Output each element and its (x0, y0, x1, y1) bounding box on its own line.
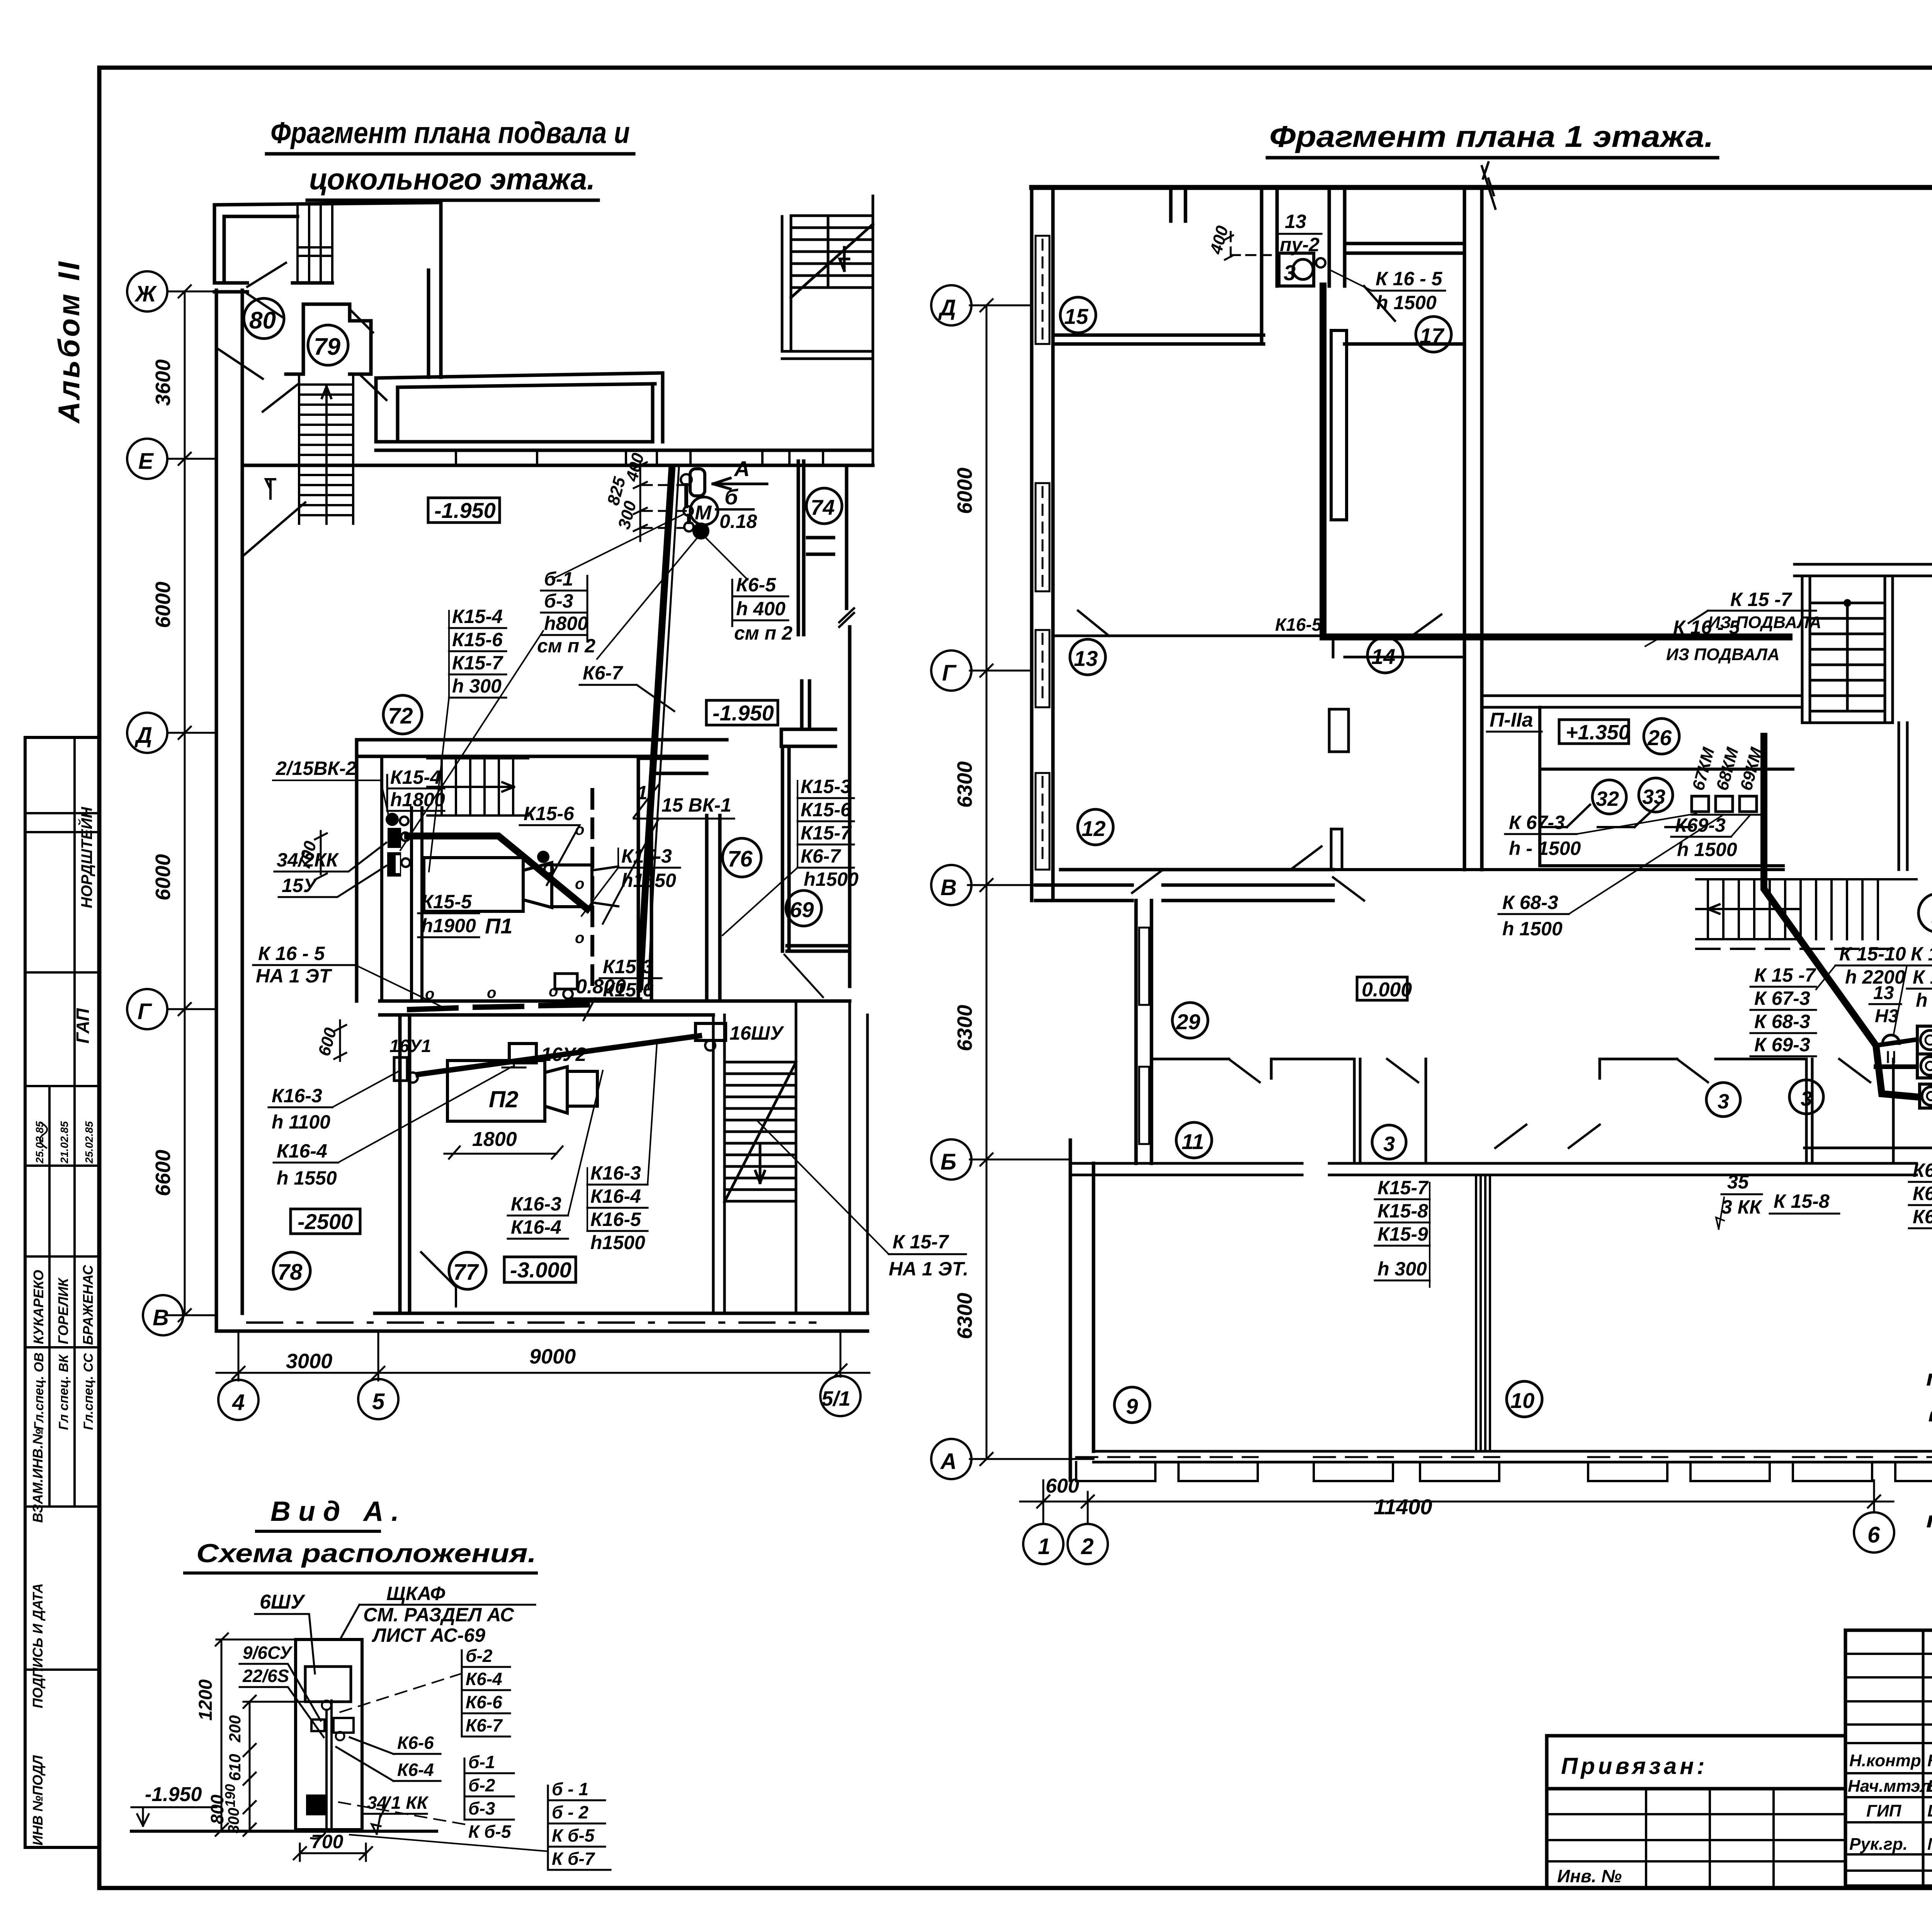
label K15-7 K67-3 K68-3 K69-3 stack (1750, 964, 1816, 1056)
svg-text:ЩКАФ: ЩКАФ (386, 1583, 445, 1604)
svg-text:Рук.гр.: Рук.гр. (1849, 1835, 1908, 1854)
svg-text:о: о (575, 930, 584, 947)
NE stair block (782, 196, 873, 465)
svg-text:б-3: б-3 (468, 1798, 495, 1818)
svg-text:пу-2: пу-2 (1280, 234, 1320, 255)
svg-text:12: 12 (1082, 816, 1105, 841)
svg-text:29: 29 (1176, 1010, 1200, 1034)
base hook (311, 1830, 327, 1839)
svg-text:К6-7: К6-7 (801, 845, 841, 867)
bottom axis dims (216, 1331, 869, 1420)
corridor bottom walls (380, 1001, 850, 1015)
svg-text:цокольного этажа.: цокольного этажа. (309, 162, 595, 196)
dim ticks near M (604, 451, 696, 541)
svg-text:А: А (940, 1449, 957, 1474)
KM labels rotated (1689, 745, 1766, 793)
svg-text:6300: 6300 (953, 1005, 976, 1051)
svg-text:М: М (695, 502, 712, 524)
svg-text:35: 35 (1727, 1171, 1749, 1193)
svg-text:76: 76 (728, 846, 753, 872)
hydrant symbol (1883, 1035, 1900, 1062)
svg-text:200: 200 (226, 1715, 244, 1743)
room 79 door swing (350, 309, 386, 400)
svg-text:б: б (724, 485, 738, 509)
corridor windows (1139, 928, 1149, 1144)
small devices (311, 1720, 325, 1731)
svg-text:300: 300 (225, 1808, 242, 1834)
svg-text:К15-7: К15-7 (801, 822, 852, 844)
svg-text:К б-5: К б-5 (552, 1825, 595, 1845)
south outer wall (216, 1313, 867, 1331)
svg-text:0.800: 0.800 (576, 976, 626, 998)
level -1.950 box left (428, 498, 500, 523)
svg-text:Гл.спец. ОВ: Гл.спец. ОВ (32, 1352, 46, 1430)
svg-text:К15-7: К15-7 (452, 652, 503, 674)
svg-text:h 300: h 300 (452, 675, 502, 697)
B axis wall (Б) (1070, 1163, 1917, 1175)
svg-text:13: 13 (1074, 646, 1098, 671)
corridor walls under hall (242, 442, 873, 465)
porch top-left block (214, 203, 441, 283)
svg-text:800: 800 (207, 1794, 227, 1824)
room 79 tag (308, 325, 348, 365)
label K16-5 iz podvala (1645, 616, 1780, 664)
label K15-7 NA 1 ET (757, 1121, 968, 1280)
svg-text:К 15-7: К 15-7 (893, 1231, 949, 1253)
svg-text:25.02.85: 25.02.85 (34, 1121, 46, 1164)
dim 700 (294, 1831, 372, 1861)
svg-text:К15-4: К15-4 (452, 606, 503, 627)
label K15-6 (520, 803, 580, 885)
svg-text:НА 1 ЭТ.: НА 1 ЭТ. (889, 1258, 968, 1280)
south stair (corridor) (1696, 879, 1917, 949)
svg-text:б-2: б-2 (466, 1646, 493, 1666)
wall break symbol (839, 608, 854, 627)
label K68-3 h1500 (1498, 815, 1723, 940)
svg-text:h1500: h1500 (804, 868, 859, 890)
B axis corridor walls (1036, 870, 1333, 901)
level 0.000 box (1357, 977, 1412, 1001)
svg-text:см п 2: см п 2 (734, 622, 793, 644)
svg-text:Альбом II: Альбом II (52, 259, 86, 424)
north wall (1032, 185, 1932, 190)
svg-text:72: 72 (388, 703, 413, 729)
label 35/3KK (1716, 1171, 1762, 1229)
label K6-4 (336, 1747, 440, 1781)
svg-text:Д: Д (938, 295, 956, 320)
svg-text:Е: Е (138, 449, 154, 474)
room 74 tag (806, 488, 842, 524)
svg-text:б-1: б-1 (468, 1752, 495, 1772)
svg-text:о: о (549, 983, 558, 1000)
svg-text:Кунина: Кунина (1927, 1751, 1932, 1770)
svg-text:б - 1: б - 1 (552, 1779, 588, 1799)
svg-text:3600: 3600 (151, 359, 175, 406)
svg-text:ПОДПИСЬ И ДАТА: ПОДПИСЬ И ДАТА (30, 1583, 46, 1708)
room 29 tag (1172, 1003, 1208, 1038)
svg-text:К 15-9: К 15-9 (1913, 966, 1932, 988)
dim 600 (315, 1020, 346, 1061)
svg-text:Гл.спец. СС: Гл.спец. СС (81, 1353, 96, 1430)
west corridor wall section (1136, 901, 1151, 1163)
motor circle M (690, 497, 718, 525)
svg-text:А: А (733, 456, 750, 481)
svg-text:ИЗ ПОДВАЛА: ИЗ ПОДВАЛА (1708, 613, 1821, 632)
door arcs 13/14 (1078, 286, 1441, 637)
svg-text:б - 2: б - 2 (552, 1802, 588, 1822)
svg-text:69: 69 (790, 897, 814, 922)
svg-text:Мороз: Мороз (1927, 1835, 1932, 1854)
room 13 tag (1070, 639, 1105, 675)
signature squiggles (40, 1122, 47, 1148)
svg-text:КУКАРЕКО: КУКАРЕКО (31, 1270, 46, 1344)
svg-text:ЛИСТ АС-69: ЛИСТ АС-69 (372, 1624, 485, 1646)
corridor G walls (1482, 696, 1802, 707)
svg-text:22/6S: 22/6S (242, 1666, 289, 1686)
level -3.000 box (504, 1257, 576, 1282)
labels 34/2KK 15U (274, 843, 386, 897)
svg-text:К15-6: К15-6 (801, 799, 852, 821)
labels K16-3 h1100 (269, 1071, 400, 1133)
svg-text:10: 10 (1510, 1388, 1534, 1413)
svg-text:К 67-3: К 67-3 (1509, 812, 1565, 833)
svg-text:3: 3 (1718, 1090, 1729, 1113)
svg-text:600: 600 (1046, 1475, 1079, 1497)
label K16-3 K16-4 stack (508, 1071, 603, 1239)
svg-text:6000: 6000 (953, 468, 976, 514)
svg-text:700: 700 (311, 1831, 344, 1852)
label K15-7 K15-8 K15-9 h300 stack (1375, 1177, 1430, 1287)
svg-text:h 300: h 300 (1378, 1258, 1427, 1280)
svg-text:0.000: 0.000 (1362, 979, 1412, 1001)
corridor heavy dashed run (410, 1005, 587, 1010)
svg-text:Г: Г (138, 999, 152, 1024)
svg-text:-1.950: -1.950 (713, 701, 774, 725)
svg-text:К 68-3: К 68-3 (1502, 892, 1558, 913)
svg-text:79: 79 (314, 334, 340, 360)
small junction circles (681, 474, 694, 531)
room 17 walls (1329, 187, 1464, 344)
small duct rects (1329, 709, 1349, 752)
mid wall below room72 (357, 740, 727, 1001)
label ShKAF block (340, 1583, 535, 1646)
riser pipe thick (640, 468, 672, 987)
PU-3 device (1920, 1084, 1932, 1109)
west wall windows (1036, 236, 1049, 870)
stack 6-1 6-2 K6-5 K6-7 (350, 1779, 611, 1870)
label 22/6S (240, 1666, 324, 1737)
label 1/15BK-1 (603, 782, 734, 924)
svg-text:К6-4: К6-4 (466, 1669, 502, 1689)
label stack K15-3 K15-6 K15-7 K6-7 h1500 (right) (723, 776, 859, 935)
svg-text:400: 400 (1206, 223, 1232, 256)
svg-text:Фрагмент плана 1 этажа.: Фрагмент плана 1 этажа. (1269, 119, 1714, 153)
label K69-3 h1500 (1671, 814, 1750, 860)
svg-text:К15-8: К15-8 (1378, 1200, 1428, 1222)
svg-text:9: 9 (1126, 1394, 1138, 1418)
svg-text:П1: П1 (485, 914, 512, 938)
svg-text:9000: 9000 (529, 1345, 576, 1368)
svg-text:1 КК: 1 КК (391, 1793, 429, 1813)
svg-text:Привязан:: Привязан: (1561, 1753, 1708, 1779)
filled dot near P1 (537, 851, 549, 863)
svg-text:Вид А.: Вид А. (270, 1496, 407, 1527)
label 13/N3 (1869, 983, 1901, 1027)
label 6ShU (255, 1591, 315, 1674)
room tags 11 and 3s (1176, 1122, 1212, 1158)
svg-text:1: 1 (1038, 1534, 1050, 1559)
dim 1800 (444, 1128, 563, 1159)
room 9 tag (1114, 1387, 1150, 1423)
svg-text:6600: 6600 (151, 1150, 175, 1196)
svg-text:о: о (575, 875, 584, 892)
room 78 tag (273, 1252, 310, 1289)
corridor pier ticks (456, 450, 823, 465)
level -2500 box (291, 1209, 360, 1234)
connector polyline (686, 485, 689, 522)
label K15-5 h1900 P1 (418, 891, 512, 938)
svg-text:К6-7: К6-7 (466, 1715, 503, 1735)
svg-text:h - 1500: h - 1500 (1509, 838, 1581, 859)
svg-text:К6-5: К6-5 (736, 574, 776, 596)
svg-text:-3.000: -3.000 (510, 1258, 571, 1282)
svg-text:Д: Д (134, 723, 152, 748)
room 15 tag (1060, 297, 1096, 333)
A axis window band (1076, 1451, 1932, 1481)
svg-text:h1800: h1800 (390, 789, 445, 810)
svg-text:БРАЖЕНАС: БРАЖЕНАС (80, 1265, 96, 1345)
svg-text:К 69-3: К 69-3 (1754, 1034, 1810, 1056)
center column rooms 9/10 (1476, 1175, 1490, 1451)
svg-text:К67-3: К67-3 (1913, 1159, 1932, 1181)
svg-text:К16-3: К16-3 (590, 1162, 641, 1184)
PU-1 device (1917, 1054, 1932, 1079)
svg-text:h1500: h1500 (590, 1232, 645, 1253)
svg-text:К 15 -7: К 15 -7 (1730, 589, 1793, 610)
label K16-5 small (1272, 615, 1323, 636)
west outer wall upper (1032, 187, 1053, 901)
SE stair block (713, 1001, 867, 1313)
svg-text:21.02.85: 21.02.85 (58, 1121, 70, 1164)
svg-text:К6-6: К6-6 (466, 1692, 502, 1712)
svg-text:600: 600 (315, 1025, 340, 1058)
svg-text:Нач.мтэл: Нач.мтэл (1848, 1777, 1931, 1796)
PSA device (1917, 1026, 1932, 1054)
level +1.350 box (1559, 720, 1630, 744)
drop line (325, 1710, 328, 1830)
label K16-3 K16-4 K16-5 h1500 stack (587, 1044, 657, 1253)
leader lines from dot (553, 514, 748, 659)
svg-text:Ж: Ж (134, 281, 157, 306)
hall (-1.950 pit) walls (376, 373, 663, 442)
black box (306, 1794, 327, 1815)
svg-text:h 1550: h 1550 (277, 1167, 337, 1189)
svg-text:3: 3 (1383, 1132, 1395, 1156)
o marks corridor (425, 983, 558, 1003)
rooms 9/10 west wall (1070, 1140, 1094, 1480)
svg-text:+1.350: +1.350 (1566, 721, 1630, 744)
view A arrow (713, 456, 767, 489)
label K16-5 NA 1 ET (253, 943, 444, 1008)
cabinet inner divider (330, 1701, 333, 1830)
svg-text:5: 5 (372, 1389, 385, 1414)
svg-text:-1.950: -1.950 (145, 1783, 202, 1806)
svg-text:К16-3: К16-3 (272, 1085, 322, 1107)
device box on diagonal (555, 974, 577, 999)
svg-text:15: 15 (1064, 304, 1088, 329)
svg-text:-2500: -2500 (298, 1209, 353, 1234)
svg-text:К68-3: К68-3 (1913, 1183, 1932, 1204)
svg-text:К16-3: К16-3 (511, 1193, 561, 1215)
svg-text:17: 17 (1420, 323, 1445, 348)
svg-text:В: В (153, 1305, 169, 1330)
right rooms 3 partitions (1600, 1059, 1893, 1163)
label 13/PU-2 (1277, 211, 1321, 255)
svg-text:НОРДШТЕЙН: НОРДШТЕЙН (77, 807, 95, 908)
svg-text:внешних проводок А6, А7, А10,: внешних проводок А6, А7, А10, А12, А14. (1928, 1401, 1932, 1427)
svg-text:Гл спец. ВК: Гл спец. ВК (56, 1354, 71, 1430)
svg-text:h 1500: h 1500 (1502, 918, 1563, 940)
bottom axis dims (center) (1020, 1475, 1894, 1564)
svg-text:К6-4: К6-4 (397, 1760, 434, 1780)
svg-text:К 16 - 5: К 16 - 5 (1376, 268, 1443, 289)
svg-text:Н.контр.: Н.контр. (1849, 1751, 1926, 1770)
lower landing diagonal (242, 479, 305, 557)
svg-text:К б-5: К б-5 (468, 1822, 512, 1842)
thick pipe K15-7 down (1764, 736, 1917, 1097)
svg-text:Фрагмент плана подвала и: Фрагмент плана подвала и (270, 116, 630, 150)
svg-text:К15-7: К15-7 (1378, 1177, 1429, 1199)
porch right wall (429, 203, 441, 377)
wall break slash (1482, 162, 1495, 209)
svg-text:К 15-10: К 15-10 (1839, 943, 1906, 965)
KM device boxes (1692, 796, 1762, 815)
svg-text:2: 2 (1081, 1534, 1094, 1559)
svg-text:К15-3: К15-3 (621, 845, 672, 867)
room 15 walls (1053, 187, 1277, 344)
device 16ShU (696, 1022, 785, 1050)
axis Ж wall piers (214, 283, 332, 292)
svg-text:-1.950: -1.950 (434, 498, 496, 523)
svg-text:4: 4 (232, 1390, 245, 1415)
junction dot (692, 523, 709, 540)
svg-text:13: 13 (1285, 211, 1306, 232)
room 26 tag (1644, 718, 1679, 754)
svg-text:К 15-10: К 15-10 (1911, 943, 1932, 965)
central stair (299, 374, 353, 524)
room 79 outline (286, 304, 371, 374)
label stack b-1 b-3 h800 smp2 (400, 568, 595, 850)
axis circles and dims (center) (931, 285, 1094, 1479)
west outer wall (216, 290, 242, 1331)
svg-text:h 400: h 400 (736, 598, 786, 620)
svg-text:ГОРЕЛИК: ГОРЕЛИК (55, 1277, 71, 1344)
svg-text:К69-3: К69-3 (1913, 1206, 1932, 1227)
svg-text:Инв. №: Инв. № (1557, 1866, 1622, 1886)
svg-text:о: о (487, 984, 496, 1001)
dashed riser with o marks (575, 790, 592, 989)
svg-text:К б-7: К б-7 (552, 1849, 595, 1869)
room 12 tag (1078, 809, 1113, 845)
P2 unit (447, 1061, 597, 1121)
cabinet outline (296, 1639, 362, 1830)
label K67-3 K68-3 K69-3 stack (1909, 1159, 1932, 1228)
base ground line (131, 1830, 437, 1833)
room 26 block walls (1540, 707, 1793, 866)
svg-text:1800: 1800 (472, 1128, 517, 1151)
labels K16-4 h1550 (274, 1067, 512, 1189)
right side walls rooms 76/69 (638, 681, 849, 1001)
svg-text:33: 33 (1642, 785, 1665, 809)
svg-text:6300: 6300 (953, 761, 976, 808)
room 77 tag (449, 1252, 486, 1289)
svg-text:6300: 6300 (953, 1293, 976, 1339)
level -1.950 mark (131, 1783, 216, 1826)
svg-text:НА 1 ЭТ: НА 1 ЭТ (256, 965, 333, 987)
room 69 door leader (784, 955, 823, 997)
svg-text:К15-6: К15-6 (524, 803, 575, 824)
doors 32/33 (1540, 805, 1692, 827)
rooms 32/33 tags (1592, 780, 1626, 814)
dim ladder (196, 1633, 309, 1836)
svg-text:о: о (575, 821, 584, 838)
svg-text:h800: h800 (544, 613, 588, 634)
svg-text:3000: 3000 (286, 1350, 332, 1373)
svg-text:77: 77 (453, 1260, 479, 1285)
label K6-7 (580, 662, 674, 711)
porch stair treads (298, 204, 332, 282)
svg-text:25.02.85: 25.02.85 (83, 1121, 95, 1164)
svg-text:ГИП: ГИП (1866, 1801, 1902, 1820)
rooms 78/77 divider (400, 1015, 410, 1313)
svg-text:16У2: 16У2 (541, 1044, 586, 1065)
dim 400 (1206, 223, 1279, 260)
label K15-8 right (1770, 1190, 1839, 1214)
svg-text:К16-4: К16-4 (277, 1140, 327, 1162)
svg-text:26: 26 (1647, 725, 1672, 750)
svg-text:К15-6: К15-6 (452, 629, 503, 650)
svg-text:типы труб соответствуют схемам: типы труб соответствуют схемам соединени… (1926, 1365, 1932, 1391)
NE lower walls / room 74 (798, 461, 850, 986)
room 77 door (421, 1252, 456, 1306)
svg-text:11400: 11400 (1374, 1495, 1432, 1519)
rotated names (30, 807, 96, 1845)
K15-3 h1650 label (582, 845, 680, 916)
svg-text:h 1500: h 1500 (1916, 989, 1932, 1011)
sidebar box (25, 737, 99, 1847)
sign table (1845, 1630, 1932, 1886)
room 80 tag (244, 298, 284, 339)
svg-text:80: 80 (249, 307, 276, 334)
mid stair passage (427, 758, 528, 815)
svg-text:К16-5: К16-5 (1275, 615, 1322, 635)
svg-text:б-3: б-3 (544, 590, 573, 612)
svg-text:h 1500: h 1500 (1677, 839, 1737, 860)
label 0.800 (572, 976, 641, 1020)
svg-text:h 1100: h 1100 (272, 1111, 330, 1133)
svg-text:2/15ВК-2: 2/15ВК-2 (276, 758, 357, 779)
svg-text:3: 3 (1801, 1087, 1812, 1110)
room 10 tag (1507, 1381, 1542, 1417)
svg-text:15 ВК-1: 15 ВК-1 (662, 794, 731, 816)
svg-text:6: 6 (1867, 1522, 1880, 1548)
P1 unit (424, 858, 618, 911)
svg-text:11: 11 (1182, 1129, 1204, 1154)
svg-text:К15-5: К15-5 (421, 891, 472, 913)
label 9/6SU (240, 1643, 321, 1721)
svg-text:ИНВ №ПОДЛ: ИНВ №ПОДЛ (30, 1755, 46, 1845)
room 69 tag (786, 890, 821, 926)
